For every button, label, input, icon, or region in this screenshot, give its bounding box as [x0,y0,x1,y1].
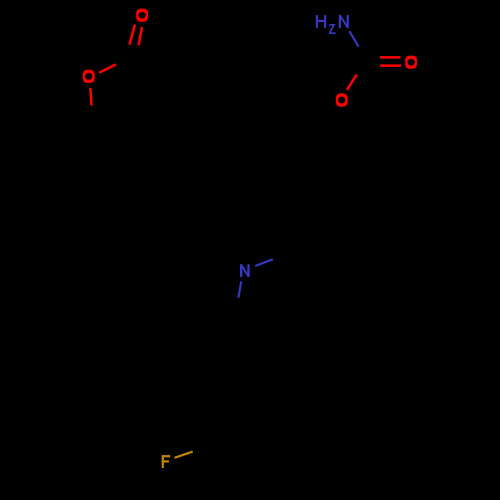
bond C2=O1 double bond outer line [130,25,136,45]
bond F-C half-bond [175,452,193,458]
bond C6=O3 double bond top line [380,56,400,59]
bond C2=O1 double bond inner line [139,27,142,45]
atom O2 lactone ring oxygen [83,70,95,83]
atom O3 carbamate carbonyl oxygen [405,56,417,69]
atom N1 amide nitrogen label H2N [317,15,325,28]
bond N2-C down half-bond [238,281,241,298]
N of H2N [340,15,348,28]
atom F fluorine [162,455,171,468]
subscript 2 of H2N [329,25,336,33]
atom O4 carbamate ester oxygen [336,93,348,106]
atom N2 amine nitrogen [241,264,248,277]
bond O2-C5 half-bond going down [90,88,91,106]
bond C6=O3 double bond bottom line [380,64,401,67]
atom O1 lactone carbonyl oxygen [136,9,148,22]
bond O2-C2 half-bond [99,64,116,72]
bond N2-C up-right half-bond [255,259,273,266]
bond N1-C6 half-bond [349,31,358,46]
bond C6-O4 half-bond [347,75,357,90]
